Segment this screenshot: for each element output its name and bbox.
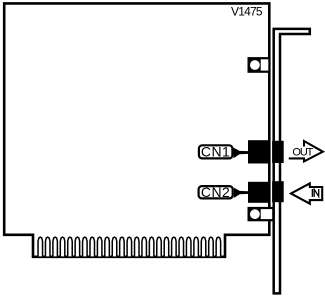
svg-text:CN1: CN1 <box>201 143 231 159</box>
label CN2 box <box>199 186 233 198</box>
IN text <box>311 189 313 197</box>
PCB outline with card-edge notch <box>4 3 269 256</box>
OUT arrow <box>290 141 323 161</box>
screw hole bottom <box>249 208 261 221</box>
svg-text:V1475: V1475 <box>231 4 263 18</box>
RCA jack CN1 barrel <box>272 141 284 163</box>
label CN1 box <box>199 145 233 158</box>
svg-text:OUT: OUT <box>292 147 313 159</box>
card edge connector teeth <box>38 237 221 256</box>
metal bracket <box>274 29 310 294</box>
svg-text:CN2: CN2 <box>201 184 231 200</box>
screw mount bottom <box>249 208 274 220</box>
screw hole top <box>249 58 261 72</box>
screw mount top <box>249 58 270 71</box>
RCA jack CN2 body <box>248 182 270 203</box>
RCA jack CN2 barrel <box>272 181 284 202</box>
pointer CN2 <box>234 188 249 198</box>
pointer CN1 <box>234 148 249 159</box>
IN arrow <box>291 183 322 203</box>
RCA jack CN1 body <box>248 140 270 163</box>
